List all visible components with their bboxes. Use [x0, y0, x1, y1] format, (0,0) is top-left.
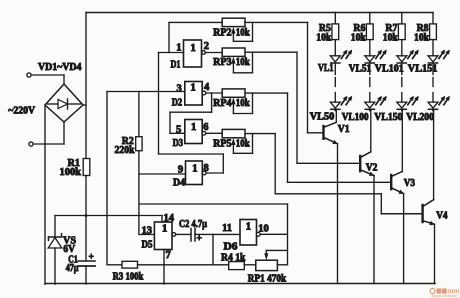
svg-text:3: 3: [176, 83, 181, 94]
svg-text:10k: 10k: [236, 98, 250, 109]
svg-text:7: 7: [166, 250, 171, 261]
svg-text:V2: V2: [366, 163, 378, 174]
svg-text:1: 1: [191, 43, 196, 54]
svg-text:10k: 10k: [316, 33, 331, 44]
svg-text:C2 4.7µ: C2 4.7µ: [179, 219, 207, 230]
svg-text:VL51: VL51: [349, 64, 372, 75]
svg-text:RP2: RP2: [213, 27, 232, 38]
svg-text:V4: V4: [436, 211, 448, 222]
svg-text:VL150: VL150: [374, 112, 402, 123]
svg-text:10k: 10k: [414, 33, 429, 44]
svg-text:10k: 10k: [236, 27, 250, 38]
svg-text:10k: 10k: [236, 139, 250, 150]
svg-text:100k: 100k: [60, 167, 82, 178]
svg-text:2: 2: [204, 41, 209, 52]
svg-text:VL101: VL101: [375, 64, 404, 75]
svg-text:4: 4: [204, 82, 210, 93]
svg-text:6: 6: [203, 122, 208, 133]
svg-text:10k: 10k: [383, 33, 398, 44]
svg-text:+: +: [197, 234, 202, 244]
svg-text:VL200: VL200: [406, 112, 434, 123]
svg-text:1: 1: [246, 222, 251, 233]
svg-text:RP3: RP3: [213, 57, 232, 68]
svg-text:1: 1: [192, 164, 197, 175]
svg-text:R4 1k: R4 1k: [221, 252, 246, 263]
svg-text:D5: D5: [142, 240, 153, 251]
svg-text:RP4: RP4: [213, 98, 232, 109]
svg-text:R3 100k: R3 100k: [113, 272, 144, 283]
svg-text:1: 1: [176, 43, 181, 54]
svg-text:13: 13: [142, 226, 153, 237]
svg-text:VL50: VL50: [310, 111, 335, 122]
svg-text:1: 1: [191, 122, 196, 133]
svg-text:RP1 470k: RP1 470k: [248, 274, 286, 285]
svg-text:14: 14: [164, 213, 175, 224]
svg-text:VL100: VL100: [342, 112, 369, 123]
svg-text:6V: 6V: [63, 244, 75, 255]
svg-text:D3: D3: [173, 138, 183, 149]
svg-text:11: 11: [222, 223, 232, 234]
svg-text:47µ: 47µ: [66, 263, 79, 274]
svg-text:8: 8: [204, 163, 209, 174]
svg-text:10k: 10k: [236, 57, 250, 68]
svg-text:D6: D6: [224, 242, 238, 253]
svg-text:10: 10: [258, 223, 269, 234]
svg-text:1: 1: [191, 83, 196, 94]
svg-text:RP5: RP5: [213, 139, 232, 150]
svg-text:D2: D2: [172, 98, 183, 109]
svg-text:+: +: [89, 253, 94, 263]
svg-text:VD1~VD4: VD1~VD4: [38, 62, 82, 73]
svg-text:D4: D4: [173, 178, 186, 189]
svg-text:5: 5: [176, 125, 181, 136]
svg-text:10k: 10k: [351, 33, 366, 44]
svg-text:220k: 220k: [115, 145, 135, 156]
svg-text:V3: V3: [404, 178, 415, 189]
svg-text:9: 9: [178, 165, 183, 176]
svg-text:1: 1: [162, 223, 167, 234]
svg-text:VL151: VL151: [408, 64, 438, 75]
svg-text:~220V: ~220V: [8, 106, 35, 117]
svg-text:D1: D1: [171, 60, 181, 71]
svg-text:V1: V1: [338, 124, 350, 135]
svg-text:VL1: VL1: [318, 63, 334, 74]
